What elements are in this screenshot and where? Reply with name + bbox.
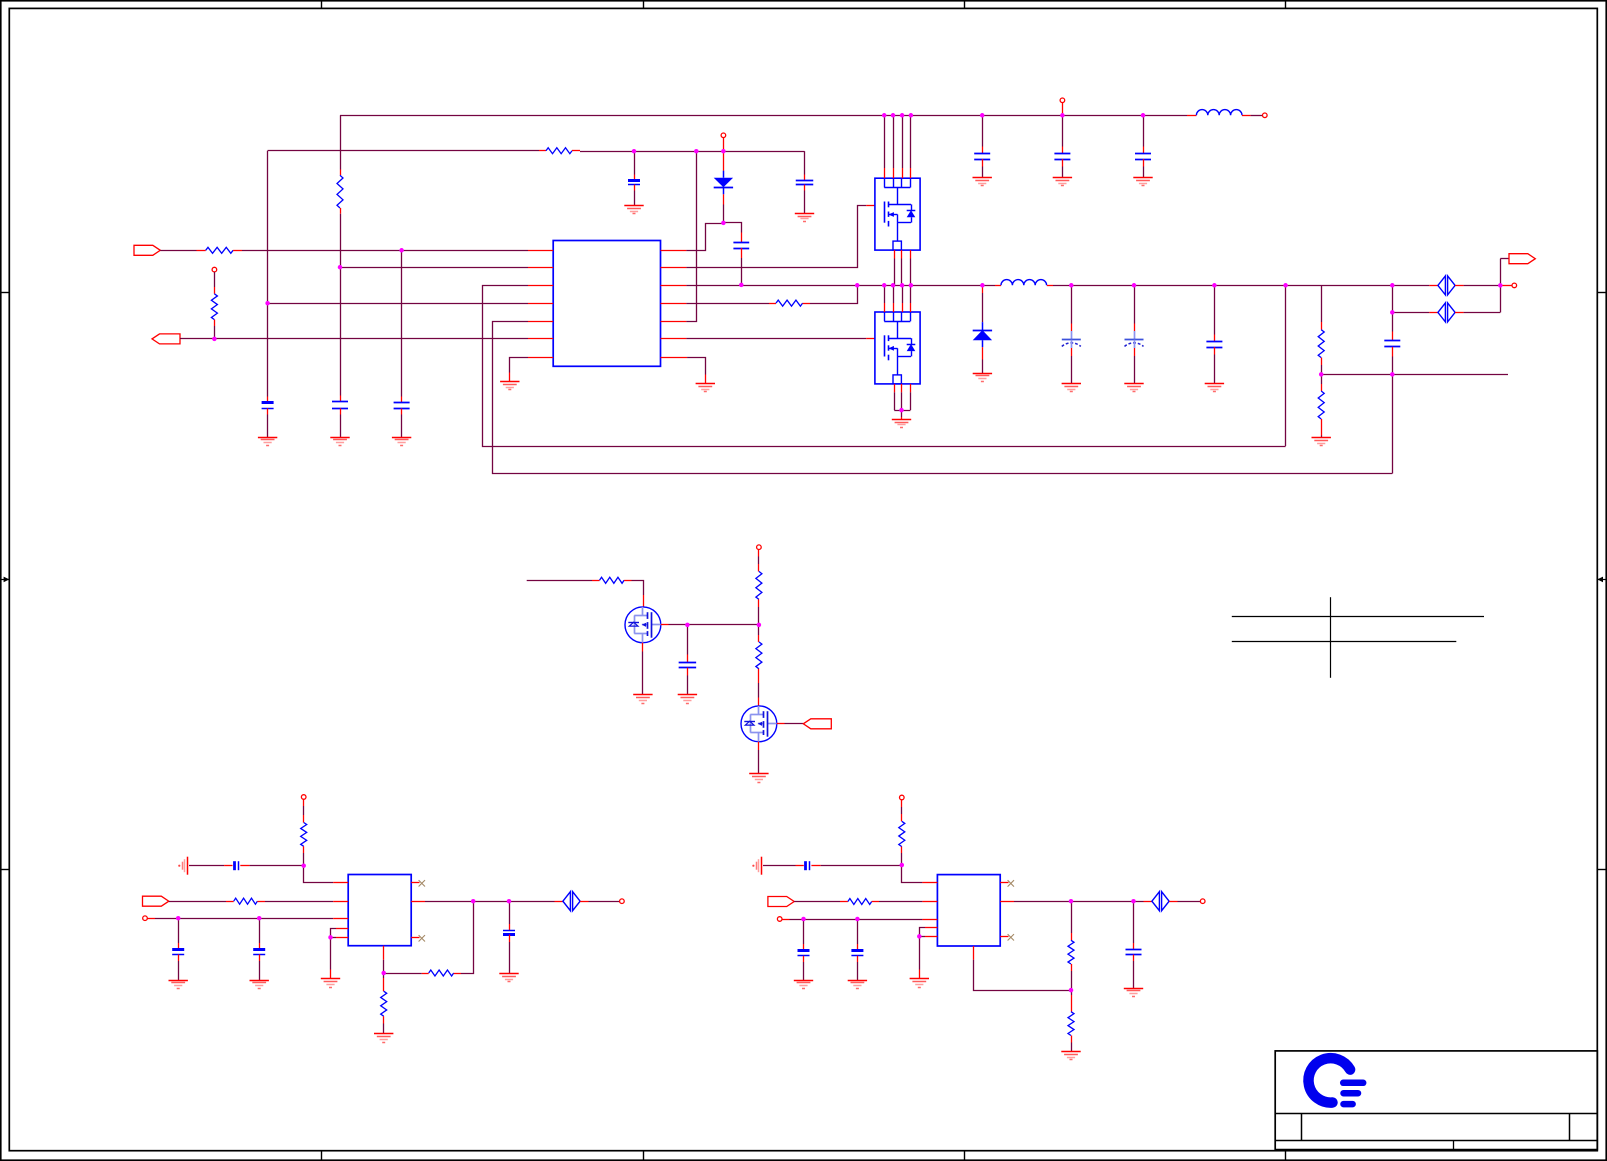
wire VIN to Q1 pin2 xyxy=(893,115,895,168)
resistor R9 xyxy=(756,571,762,599)
wire U1 pin3 to feedback xyxy=(483,286,1286,447)
pin stub R17 top xyxy=(1071,933,1073,940)
border zone tick top 3 xyxy=(964,1,966,9)
pin 2 of U1 xyxy=(528,267,553,269)
wire R9 to node xyxy=(758,607,760,625)
capacitor C15 xyxy=(235,861,239,870)
wire F4 to terminal xyxy=(1178,901,1201,903)
wire chassis to C15 xyxy=(189,865,224,867)
wire R18 to ground xyxy=(1071,1043,1073,1052)
Q2 top pin 1 xyxy=(884,303,886,312)
cap C16 top lead xyxy=(178,943,180,949)
cap C3 bottom lead xyxy=(401,409,403,415)
company logo xyxy=(1308,1058,1363,1104)
T10 lead xyxy=(901,800,903,807)
cap C11 top lead xyxy=(1134,324,1136,332)
diode D1 xyxy=(714,171,733,195)
ground xyxy=(374,1034,393,1043)
pin stub R5 left xyxy=(769,303,776,305)
wire R3 down xyxy=(340,214,342,396)
wire T5 to R4 xyxy=(214,272,216,287)
pin 11 of U1 xyxy=(661,321,687,323)
ground xyxy=(1133,178,1152,186)
junction xyxy=(909,283,914,288)
junction xyxy=(1131,899,1136,904)
wire R1 to U1 pin1 xyxy=(242,250,528,252)
port P2 input xyxy=(152,334,180,344)
wire net VIN2 xyxy=(268,150,539,152)
junction xyxy=(900,283,905,288)
ic U1 xyxy=(553,241,660,367)
filter F2 xyxy=(1438,303,1455,322)
cap C19 right lead xyxy=(811,865,820,867)
cap C9 top lead xyxy=(1143,147,1145,154)
wire Q3 source to ground xyxy=(642,652,644,695)
pin stub L2 right xyxy=(1047,285,1053,287)
pin stub R10 top xyxy=(758,635,760,642)
wire out to R17 xyxy=(1071,901,1073,933)
inductor L1 xyxy=(1196,110,1242,116)
wire VOUT to feedback 1 xyxy=(1285,285,1287,446)
capacitor C6 xyxy=(796,181,814,185)
cap C14 top lead xyxy=(687,655,689,663)
wire gate feed xyxy=(527,580,592,582)
cap C17 top lead xyxy=(259,943,261,949)
pin stub R4 bottom xyxy=(214,320,216,326)
wire VIN to C7 xyxy=(982,115,984,146)
border zone tick right lower xyxy=(1597,869,1606,871)
ground xyxy=(169,981,188,989)
wire R11 to node xyxy=(303,853,305,866)
wire node A to U1 pin4 xyxy=(268,303,528,305)
title block row divider 2 xyxy=(1275,1140,1597,1142)
cap C18 bottom lead xyxy=(509,935,511,942)
wire Q4 source to ground xyxy=(758,750,760,774)
pin 4 of U2 xyxy=(336,928,348,930)
Q2 top pin 4 xyxy=(910,303,912,312)
junction xyxy=(212,337,217,342)
border zone tick right upper xyxy=(1597,292,1606,294)
port P5 xyxy=(803,719,831,729)
cap C15 right lead xyxy=(240,865,249,867)
T3 lead xyxy=(723,138,725,152)
ground xyxy=(696,384,715,392)
wire R15 to node xyxy=(901,853,903,865)
cap C10 lead pale xyxy=(1071,331,1073,340)
T1 lead xyxy=(1062,103,1064,116)
Q2 top pin 3 xyxy=(902,303,904,312)
wire VOUT to C11 xyxy=(1134,285,1136,323)
cap C19 left lead xyxy=(796,865,804,867)
terminal T11 xyxy=(777,917,782,922)
wire top bus left corner xyxy=(340,115,342,169)
junction xyxy=(917,934,922,939)
no-connect xyxy=(1008,934,1014,940)
T11 lead xyxy=(782,919,790,921)
pin 6 of U2 bottom xyxy=(383,946,385,960)
Q4 drain lead xyxy=(758,698,760,706)
ground xyxy=(1053,178,1072,186)
pin 2 of U2 xyxy=(333,901,348,903)
resistor R3 xyxy=(337,175,343,208)
wire U1 pin11 to VIN2 xyxy=(686,151,696,321)
wire R2 to corner xyxy=(580,151,805,153)
pin stub R4 top xyxy=(214,287,216,294)
capacitor C1 xyxy=(262,403,274,409)
T6 lead xyxy=(758,550,760,557)
wire VOUT bus xyxy=(1053,285,1429,287)
ground lead xyxy=(330,970,332,979)
resistor R11 xyxy=(301,823,307,847)
ground lead xyxy=(509,373,511,382)
pin stub R9 bottom xyxy=(758,599,760,607)
resistor R18 xyxy=(1068,1012,1074,1036)
diode D2 top lead xyxy=(982,285,984,293)
wire R13 to out riser xyxy=(461,901,474,973)
junction xyxy=(1390,310,1395,315)
cap C13 bottom lead xyxy=(1392,347,1394,357)
wire U2 pin4 jog xyxy=(331,929,337,938)
diode D2 bottom lead xyxy=(982,347,984,359)
wire R17 to fb node xyxy=(1071,971,1073,990)
wire enable rail xyxy=(155,918,333,920)
resistor R14 xyxy=(381,991,387,1016)
pin stub R5 right xyxy=(803,303,810,305)
junction xyxy=(891,283,896,288)
wire riser xyxy=(1392,312,1394,331)
wire out to C22 xyxy=(1133,901,1135,943)
wire fb to R18 xyxy=(1071,990,1073,995)
ground xyxy=(973,178,992,186)
wire vertical C xyxy=(401,250,403,396)
chassis ground xyxy=(178,857,187,875)
terminal T9 xyxy=(620,899,625,904)
Q1 top pin 2 xyxy=(893,168,895,178)
diode D2 xyxy=(973,322,992,347)
resistor R17 xyxy=(1068,940,1074,964)
cap C10 lower lead pale xyxy=(1071,340,1073,348)
wire VOUT to C12 xyxy=(1214,285,1216,334)
junction xyxy=(1212,283,1217,288)
pin 3 of U1 xyxy=(528,285,553,287)
wire U3 pin6 to fb xyxy=(974,960,1072,991)
border zone tick bottom 4 xyxy=(1285,1151,1287,1161)
junction xyxy=(980,283,985,288)
pin stub R13 left xyxy=(422,973,429,975)
wire sense line xyxy=(1321,374,1508,376)
cap C21 top lead xyxy=(857,944,859,951)
junction xyxy=(1390,372,1395,377)
wire SW to Q2 pin2 xyxy=(893,285,895,303)
capacitor C2 xyxy=(332,402,348,409)
terminal T12 xyxy=(1200,899,1205,904)
Q4 gate lead xyxy=(777,723,785,725)
Q1 bottom pin 1 xyxy=(894,250,896,258)
revision table line 2 xyxy=(1232,641,1457,643)
border center arrow right xyxy=(1597,577,1606,583)
wire U2 pin6 to fb node xyxy=(383,960,385,973)
wire VOUT to C10 xyxy=(1071,285,1073,323)
terminal T1 power tap xyxy=(1060,98,1065,103)
pin stub R3 bottom xyxy=(340,208,342,214)
wire to port P6 xyxy=(1500,258,1509,260)
pin 6 of U1 xyxy=(528,338,553,340)
wire U1 pin10 to R5 xyxy=(686,303,769,305)
Q1 bottom pin 2 xyxy=(901,250,903,258)
pin 8 of U1 xyxy=(661,250,687,252)
resistor R5 xyxy=(776,300,803,306)
wire fb node to R13 xyxy=(384,973,422,975)
filter F1 xyxy=(1438,276,1455,295)
capacitor C9 xyxy=(1135,154,1151,160)
Q2 bottom pin 3 xyxy=(910,384,912,392)
cap C5 bottom lead xyxy=(741,248,743,258)
wire fb node to R14 xyxy=(383,973,385,978)
cap C21 bottom lead xyxy=(857,956,859,962)
capacitor C18 xyxy=(503,931,515,935)
filter F3 right lead xyxy=(580,901,588,903)
wire R10 to Q4 xyxy=(758,683,760,698)
capacitor C11 xyxy=(1125,340,1144,347)
wire U3 gnd pins down xyxy=(919,936,921,969)
cap C10 top lead xyxy=(1071,324,1073,332)
wire C7 to ground xyxy=(982,167,984,178)
wire F1 to output node xyxy=(1464,285,1501,287)
wire VIN to Q1 pin1 xyxy=(884,115,886,168)
ground xyxy=(258,438,277,446)
capacitor C19 xyxy=(806,861,810,870)
ic U3 xyxy=(937,875,1000,946)
resistor R13 xyxy=(429,970,454,976)
filter F3 xyxy=(563,892,580,911)
pin 10 of U1 xyxy=(661,303,687,305)
wire sense to R7 xyxy=(1321,374,1323,384)
wire T7 to R11 xyxy=(303,806,305,815)
Q1 top pin 4 xyxy=(910,168,912,178)
junction xyxy=(1060,113,1065,118)
resistor R8 xyxy=(600,577,625,583)
pin 5 of U2 xyxy=(336,937,348,939)
capacitor C22 xyxy=(1126,950,1142,955)
wire Q2 pin to join xyxy=(894,392,896,410)
title block cell divider right xyxy=(1569,1114,1571,1141)
cap C15 left lead xyxy=(224,865,232,867)
border zone tick top 1 xyxy=(321,1,323,9)
wire R5 to SW bus xyxy=(810,285,858,303)
ground xyxy=(973,374,992,382)
ground xyxy=(892,420,911,428)
resistor R10 xyxy=(756,642,762,669)
pin 9 of U3 nc xyxy=(1000,936,1008,938)
terminal T3 xyxy=(721,133,726,138)
cap C4 top lead xyxy=(634,175,636,181)
pin stub R16 left xyxy=(840,901,848,903)
cap C22 top lead xyxy=(1133,943,1135,950)
wire rail2 to C21 xyxy=(857,919,859,944)
pin 12 of U1 xyxy=(661,338,687,340)
pin 9 of U1 xyxy=(661,267,687,269)
wire to C4 xyxy=(634,151,636,174)
wire node B to U1 pin2 xyxy=(340,267,528,269)
transistor Q2 xyxy=(875,312,920,384)
filter F4 left lead xyxy=(1144,901,1152,903)
wire U2 gnd pins down xyxy=(330,937,332,969)
pin stub R18 bottom xyxy=(1071,1036,1073,1043)
wire C21 to ground xyxy=(857,962,859,980)
wire P1 to R1 xyxy=(160,250,196,252)
cap C12 top lead xyxy=(1214,335,1216,342)
junction xyxy=(176,916,181,921)
pin stub R11 top xyxy=(303,815,305,823)
wire VIN to C8 xyxy=(1062,115,1064,146)
wire node to C14 xyxy=(687,625,689,655)
pin 4 of U3 xyxy=(925,927,937,929)
ground xyxy=(500,382,519,390)
cap C2 bottom lead xyxy=(340,408,342,414)
wire C5 to SW bus xyxy=(741,258,743,285)
capacitor C21 xyxy=(851,951,863,956)
Q3 gate lead xyxy=(661,624,669,626)
port P3 input xyxy=(143,896,169,906)
filter F1 right lead xyxy=(1455,285,1464,287)
wire corner to C6 xyxy=(804,151,806,174)
junction xyxy=(721,149,726,154)
cap C13 top lead xyxy=(1392,332,1394,341)
wire C19 to node xyxy=(821,865,902,867)
ground xyxy=(1062,384,1081,392)
wire U1 pin7 to ground xyxy=(510,358,529,373)
wire Q1 pin to SW bus xyxy=(901,259,903,286)
wire out node to C18 xyxy=(509,901,511,924)
terminal T4 output xyxy=(1512,283,1517,288)
port P1 input xyxy=(134,245,160,255)
resistor R15 xyxy=(899,821,905,846)
capacitor C20 xyxy=(798,951,810,956)
Q2 bottom pin 2 xyxy=(901,384,903,392)
inductor L2 xyxy=(1001,280,1047,286)
wire Q2 pin to join xyxy=(901,392,903,410)
wire D1 node to C5 xyxy=(723,223,741,233)
gate stub Q2 xyxy=(866,338,874,340)
resistor R12 xyxy=(234,898,258,904)
pin stub R2 left xyxy=(539,150,546,152)
diode D1 anode lead xyxy=(723,151,725,171)
cap C11 bottom lead xyxy=(1134,348,1136,356)
wire SW to Q2 pin4 xyxy=(910,285,912,303)
pin stub R1 right xyxy=(233,250,242,252)
capacitor C5 xyxy=(733,243,749,249)
cap C2 top lead xyxy=(340,396,342,402)
pin stub R10 bottom xyxy=(758,669,760,683)
wire SW bus xyxy=(686,285,995,287)
wire R7 to ground xyxy=(1321,436,1323,438)
title block cell divider left xyxy=(1301,1114,1303,1141)
pin stub R13 right xyxy=(454,973,461,975)
border zone tick left lower xyxy=(1,869,10,871)
wire node to U2 pin1 xyxy=(304,866,334,883)
terminal T2 xyxy=(1263,113,1268,118)
wire rail2 to C20 xyxy=(803,919,805,944)
pin stub R16 right xyxy=(872,901,879,903)
capacitor C10 xyxy=(1062,340,1081,347)
cap C11 lead pale xyxy=(1134,331,1136,340)
wire T10 to R15 xyxy=(901,807,903,814)
resistor R1 xyxy=(206,247,233,253)
junction xyxy=(855,917,860,922)
junction xyxy=(739,283,744,288)
cap C8 top lead xyxy=(1062,147,1064,154)
junction xyxy=(1319,372,1324,377)
wire C11 to ground xyxy=(1134,356,1136,383)
port P4 input xyxy=(768,897,794,907)
Q1 top pin 3 xyxy=(902,168,904,178)
ground xyxy=(624,206,643,214)
no-connect xyxy=(1008,880,1014,886)
pin 1 of U2 xyxy=(333,882,348,884)
resistor R2 xyxy=(546,148,572,154)
cap C16 bottom lead xyxy=(178,954,180,961)
pin stub L1 left xyxy=(1187,115,1196,117)
junction xyxy=(399,248,404,253)
ground lead xyxy=(901,417,903,419)
title block bottom cell divider xyxy=(1453,1140,1455,1149)
border zone tick top 4 xyxy=(1285,1,1287,9)
filter F3 left lead xyxy=(555,901,563,903)
junction xyxy=(900,113,905,118)
capacitor C16 xyxy=(172,950,184,955)
cap C6 top lead xyxy=(804,175,806,181)
wire C2 to ground xyxy=(340,415,342,438)
border zone tick bottom 2 xyxy=(643,1151,645,1161)
pin 9 of U2 nc xyxy=(411,937,419,939)
ground xyxy=(1061,1052,1080,1060)
junction xyxy=(471,899,476,904)
pin 3 of U3 xyxy=(922,919,937,921)
pin stub R7 bottom xyxy=(1321,419,1323,436)
pin 14 of U1 xyxy=(661,285,687,287)
revision table vertical line xyxy=(1330,597,1332,678)
T8 lead xyxy=(147,918,155,920)
junction xyxy=(891,113,896,118)
junction xyxy=(265,301,270,306)
wire U3 pin4 jog xyxy=(920,928,926,937)
resistor R4 xyxy=(211,294,217,320)
wire C1 to ground xyxy=(267,415,269,438)
wire C14 to ground xyxy=(687,676,689,695)
filter F2 left lead xyxy=(1429,312,1438,314)
capacitor C3 xyxy=(394,403,410,409)
pin stub R12 right xyxy=(257,901,265,903)
cap C17 bottom lead xyxy=(259,954,261,961)
junction xyxy=(801,917,806,922)
pin stub R9 top xyxy=(758,564,760,571)
capacitor C13 xyxy=(1384,341,1400,347)
wire VIN to Q1 pin4 xyxy=(910,115,912,168)
wire enable rail 2 xyxy=(790,919,923,921)
wire top bus VIN xyxy=(340,115,1187,117)
wire C13 to sense xyxy=(1392,357,1394,375)
resistor R6 xyxy=(1318,330,1324,358)
wire to F2 xyxy=(1392,312,1429,314)
pin stub L2 left xyxy=(995,285,1001,287)
pin stub R17 bottom xyxy=(1071,964,1073,971)
cap C8 bottom lead xyxy=(1062,159,1064,167)
junction xyxy=(882,113,887,118)
wire C18 to ground xyxy=(509,942,511,974)
pin stub R2 right xyxy=(572,150,580,152)
pin stub R11 bottom xyxy=(303,846,305,853)
no-connect xyxy=(419,935,425,941)
